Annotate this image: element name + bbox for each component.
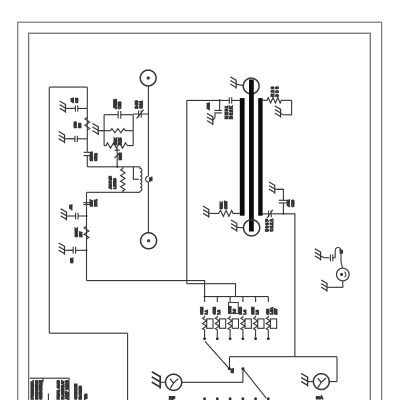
link loop L7 (335, 248, 342, 269)
contact dot L2 (216, 337, 219, 340)
capacitor C5 series on vertical (83, 203, 89, 205)
svg-text:100K: 100K (74, 228, 79, 237)
ground for C1 (60, 101, 66, 113)
capacitor C2 plates (75, 136, 77, 142)
wire from shield box bottom down to page bottom (127, 333, 129, 400)
wire T2 output down right side (283, 214, 295, 357)
junction dot C6 (85, 215, 87, 217)
transformer T1 right winding coil (140, 167, 142, 193)
shield box top edge (49, 86, 87, 88)
wire T1 bottom (87, 191, 140, 193)
svg-text:C13: C13 (117, 101, 122, 109)
coax jack J1 top (140, 70, 156, 86)
variometer shaft bottom P2 (244, 220, 260, 236)
contact dot L5 (254, 337, 257, 340)
svg-text:BT1: BT1 (93, 198, 98, 206)
svg-text:TB2: TB2 (84, 394, 88, 400)
inductor L6 stub and label (267, 297, 269, 302)
band switch bus (204, 296, 269, 298)
inductor L2 stub and label (216, 297, 218, 302)
svg-text:C12A: C12A (269, 219, 274, 232)
svg-text:RF: RF (169, 396, 175, 400)
inductor T2 left bar (240, 98, 245, 216)
wire chain lower x=86.5 (86, 192, 88, 280)
ground for P1 (230, 77, 236, 89)
RC network box right edge (132, 115, 134, 146)
wire node A horizontal y=166.8 (87, 166, 140, 168)
lamp DS1 link circuit ground top (315, 249, 321, 261)
inductor L1 coil (203, 316, 207, 338)
diode CR1 on vertical wire (84, 152, 91, 167)
capacitor C9 series plates (229, 97, 231, 103)
wire R20 to ground (283, 100, 291, 115)
junction dot C13 (282, 213, 284, 215)
crossover hop on jack wire (146, 176, 149, 182)
capacitor C10 shunt (214, 100, 222, 117)
meter M2 (313, 374, 329, 390)
junction dot C7 (85, 249, 87, 251)
title block divider (43, 378, 48, 400)
rail wire y=356.7 (230, 356, 338, 358)
svg-text:C13: C13 (290, 199, 295, 207)
junction dot C10 (219, 99, 221, 101)
svg-text:mA: mA (316, 395, 324, 400)
contact dot L1 (203, 337, 206, 340)
switch S1a wiper (205, 341, 229, 369)
ground for M2 (301, 373, 307, 386)
wire RC box left to ground (100, 130, 104, 132)
svg-text:L2528: L2528 (112, 177, 117, 189)
svg-text:GRID DRIVE: GRID DRIVE (39, 380, 43, 400)
svg-text:10T: 10T (274, 308, 278, 315)
capacitor C3 in top branch (104, 111, 133, 119)
shield box bottom edge (49, 332, 127, 334)
lamp DS1 (337, 268, 350, 281)
wire long run to band switch bus (87, 281, 205, 297)
inductor T2 right bar (258, 98, 262, 216)
svg-text:10W: 10W (223, 201, 228, 209)
inductor L5 stub and label (255, 297, 257, 302)
capacitor C6 shunt (70, 213, 86, 220)
wire S1a to rail (229, 357, 231, 369)
inductor T2 middle bar (249, 80, 254, 232)
T1 coil tap wire (133, 167, 138, 179)
svg-text:20M: 20M (228, 306, 232, 313)
meter M1 (166, 374, 182, 390)
inductor L5 coil (254, 316, 258, 338)
wire S1b to meter M1 (182, 369, 243, 383)
shield box left edge (48, 87, 50, 333)
ground for R21 (203, 206, 209, 218)
capacitor C12 series bottom right (263, 210, 284, 218)
wire chain upper x=87 (86, 87, 88, 152)
svg-text:L7: L7 (340, 249, 344, 253)
svg-text:L3: L3 (233, 309, 237, 313)
svg-text:AMP 813S: AMP 813S (65, 380, 69, 400)
ground for C6 (61, 209, 67, 221)
RC network box left edge (103, 115, 105, 146)
ground for C2 (59, 132, 65, 144)
svg-text:3R: 3R (69, 258, 74, 263)
wire M2 to rail (329, 357, 337, 382)
ground for RC box (93, 123, 99, 135)
capacitor C7 shunt (68, 247, 87, 254)
capacitor C13 shunt (277, 189, 288, 214)
contact dot L4 (242, 337, 245, 340)
svg-text:B22K: B22K (229, 106, 234, 119)
svg-text:CR2: CR2 (93, 153, 98, 161)
ground for R20 (275, 106, 281, 118)
svg-text:C14: C14 (139, 100, 144, 108)
capacitor C14 plates (330, 255, 335, 262)
junction dot node A (116, 166, 118, 168)
svg-text:52 OHMS: 52 OHMS (78, 385, 82, 399)
wire C1 branch (69, 107, 88, 109)
inductor L4 stub and label (242, 297, 244, 302)
capacitor C4 series to jack wire (133, 110, 148, 119)
inductor L3 stub and boxed label (229, 297, 231, 302)
resistor R4 bottom branch (104, 143, 133, 148)
resistor R20 top right (263, 98, 292, 103)
switch S1b wiper (243, 369, 267, 399)
variometer shaft top P1 (243, 78, 259, 94)
wire T2 feed line B (187, 284, 236, 297)
ground for C7 (59, 243, 65, 255)
inductor L3 coil (228, 316, 232, 338)
ground for P2 (231, 220, 237, 232)
svg-text:300: 300 (275, 86, 280, 97)
contact dot L3 (229, 337, 232, 340)
resistor R21 bottom left of T2 (212, 210, 240, 216)
inductor L4 coil (241, 316, 245, 338)
inner border frame (29, 33, 371, 400)
contact dot L6 (267, 337, 270, 340)
wire T2 top left y=100.4 (187, 99, 240, 101)
inductor L1 stub and label (204, 297, 206, 302)
svg-text:BZ6: BZ6 (118, 152, 123, 160)
ground for M1 (152, 372, 160, 389)
transformer T2 enclosure left wire (186, 100, 188, 283)
diode CR2 below RC box (115, 148, 120, 167)
wire DS1 to ground (330, 281, 343, 288)
inductor L6 coil (266, 316, 270, 338)
inductor L2 coil (215, 316, 219, 338)
resistor R2 inline (85, 117, 90, 130)
resistor R5 inline (84, 226, 89, 239)
bottom deck contact dots (203, 397, 206, 400)
ground for DS1 (321, 280, 327, 292)
coax jack J2 bottom (141, 233, 157, 249)
transformer T1 left winding (121, 167, 125, 193)
title block top line (30, 378, 69, 400)
ground for C13 (269, 182, 275, 194)
capacitor C1 plates (75, 105, 77, 111)
ground for C10 (207, 113, 213, 125)
svg-text:.001: .001 (206, 102, 211, 110)
wire C2 branch (68, 138, 88, 140)
svg-text:2W: 2W (79, 231, 83, 237)
resistor R3 middle branch (104, 129, 133, 133)
wire J1 down to J2 (147, 86, 149, 233)
